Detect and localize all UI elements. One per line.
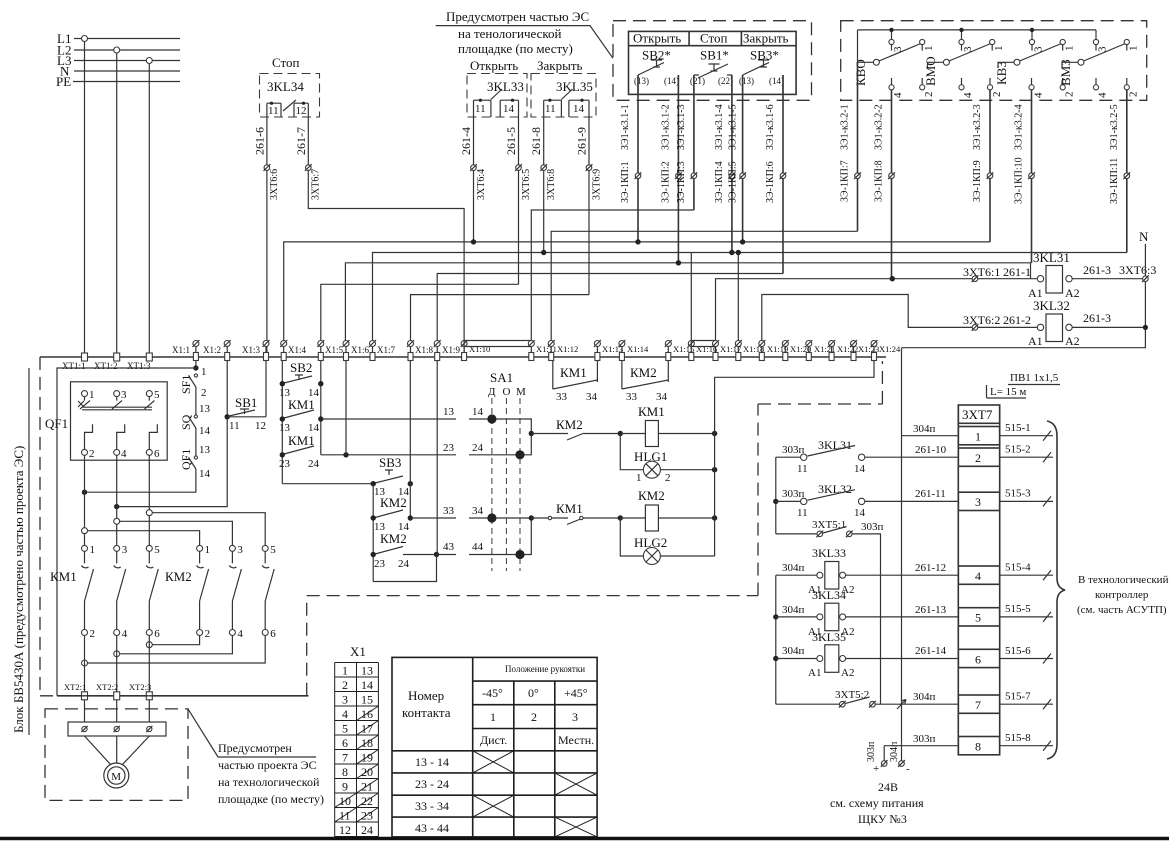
svg-text:ЗЭ1-к3.2-4: ЗЭ1-к3.2-4 <box>1014 104 1025 150</box>
svg-text:(14): (14) <box>769 76 784 86</box>
svg-text:8: 8 <box>975 740 981 754</box>
svg-text:ЗЭ-1КП:3: ЗЭ-1КП:3 <box>676 161 687 203</box>
svg-text:Стоп: Стоп <box>700 31 728 46</box>
svg-text:12: 12 <box>255 420 266 432</box>
terminal X1:18 <box>735 340 764 361</box>
svg-text:X1:5: X1:5 <box>325 345 344 355</box>
brace to controller <box>1047 421 1065 759</box>
svg-text:13: 13 <box>361 664 373 678</box>
svg-text:ЗЭ-1КП:4: ЗЭ-1КП:4 <box>714 161 725 203</box>
svg-text:23: 23 <box>279 458 291 470</box>
contact 3ХТ5:2 <box>776 689 959 709</box>
svg-text:1: 1 <box>205 544 211 556</box>
wire SF1 chain feed <box>195 361 197 371</box>
svg-text:11: 11 <box>475 103 486 115</box>
svg-text:ЗЭ1-к3.2-5: ЗЭ1-к3.2-5 <box>1109 104 1120 150</box>
svg-text:13: 13 <box>443 406 455 418</box>
wire KM2:4 to T2 <box>120 636 233 654</box>
svg-text:XT2:3: XT2:3 <box>129 682 151 692</box>
svg-text:1: 1 <box>1128 46 1140 52</box>
break contact КМ2 (row KM1 coil) <box>531 417 623 440</box>
svg-text:24: 24 <box>361 823 373 837</box>
svg-text:11: 11 <box>268 105 279 117</box>
svg-text:КМ1: КМ1 <box>50 569 77 584</box>
rail 303п short <box>883 746 885 761</box>
svg-text:5: 5 <box>342 722 348 736</box>
table Номер контакта <box>392 657 597 837</box>
break contact КМ1 (row KM2 coil) <box>531 501 623 525</box>
contact 3KL35 <box>544 89 589 117</box>
svg-text:КМ2: КМ2 <box>638 488 665 503</box>
terminal ЗЭ-1КП:7 <box>854 172 861 179</box>
svg-text:515-5: 515-5 <box>1005 603 1031 615</box>
wire branch L2 to KM2:3 <box>114 518 120 524</box>
svg-text:В технологический: В технологический <box>1078 574 1169 586</box>
svg-text:1: 1 <box>923 46 935 52</box>
svg-text:ЗЭ-1КП:6: ЗЭ-1КП:6 <box>765 161 776 203</box>
svg-text:3: 3 <box>122 544 128 556</box>
svg-text:A2: A2 <box>1065 334 1080 348</box>
svg-text:261-7: 261-7 <box>294 127 308 155</box>
svg-text:6: 6 <box>975 652 981 666</box>
terminal X1:3 <box>242 340 270 361</box>
svg-text:Местн.: Местн. <box>558 733 594 747</box>
svg-text:SB3: SB3 <box>379 455 401 470</box>
terminal X1:21 <box>805 340 835 361</box>
svg-text:3: 3 <box>892 46 904 52</box>
svg-text:7: 7 <box>975 698 981 712</box>
terminal X1:23 <box>850 340 879 361</box>
svg-text:ЗЭ-1КП:1: ЗЭ-1КП:1 <box>620 161 631 203</box>
svg-text:контроллер: контроллер <box>1095 589 1149 601</box>
svg-text:3ХТ6:7: 3ХТ6:7 <box>311 169 322 200</box>
relay coil КМ1 <box>620 404 717 447</box>
svg-text:SB1*: SB1* <box>700 48 729 63</box>
terminal X1:14 <box>618 340 649 361</box>
svg-text:XT1:1: XT1:1 <box>62 361 86 371</box>
svg-text:515-2: 515-2 <box>1005 444 1031 456</box>
terminal X1:7 <box>369 340 396 361</box>
svg-text:SA1: SA1 <box>490 370 513 385</box>
wire jog КП:10 to 3KL31 row <box>1030 263 1032 279</box>
wire phase A drop <box>84 39 86 354</box>
svg-text:2: 2 <box>89 448 95 460</box>
svg-text:XT1:2: XT1:2 <box>94 361 118 371</box>
svg-text:М: М <box>516 386 526 398</box>
wire phase col3 lower <box>148 455 150 545</box>
terminal X1:15 <box>665 340 694 361</box>
svg-text:14: 14 <box>472 406 484 418</box>
svg-text:0°: 0° <box>528 686 539 700</box>
wire T3 down <box>148 636 150 693</box>
dashed box motor area <box>45 709 188 801</box>
aux contact КМ2 33-34 top <box>622 361 668 404</box>
svg-text:XT1:3: XT1:3 <box>127 361 151 371</box>
svg-text:Д: Д <box>488 386 496 398</box>
svg-text:2: 2 <box>991 92 1003 98</box>
wire bus X1:7 to КП:11 <box>373 253 1127 344</box>
svg-text:площадке (по месту): площадке (по месту) <box>458 41 573 56</box>
svg-text:14: 14 <box>503 103 515 115</box>
switch SA1 <box>487 370 526 571</box>
svg-text:261-13: 261-13 <box>915 604 947 616</box>
svg-text:4: 4 <box>1033 92 1045 98</box>
svg-text:SQ: SQ <box>179 414 193 430</box>
relay coil 3KL32 <box>963 298 1145 348</box>
svg-text:Стоп: Стоп <box>272 55 300 70</box>
wire 261-9 <box>588 117 590 295</box>
svg-text:Открыть: Открыть <box>470 58 518 73</box>
svg-text:6: 6 <box>154 628 160 640</box>
svg-text:261-8: 261-8 <box>529 127 543 155</box>
terminal strip line <box>40 356 886 358</box>
wire 261-5 <box>518 117 520 284</box>
terminal 3ХТ6:9 <box>586 164 593 171</box>
svg-text:Закрыть: Закрыть <box>537 58 583 73</box>
svg-text:A2: A2 <box>841 667 854 679</box>
wire ЗЭ1-к3.1-6 <box>782 75 784 274</box>
svg-text:33: 33 <box>556 391 568 403</box>
svg-text:1: 1 <box>89 389 95 401</box>
svg-text:14: 14 <box>854 507 866 519</box>
terminal ЗЭ-1КП:4 <box>729 172 736 179</box>
terminal 3ХТ6:5 <box>515 164 522 171</box>
wire X1:5 drop bus <box>320 361 322 455</box>
svg-text:A1: A1 <box>808 667 821 679</box>
wire bus X1:6 to КП:10 <box>345 263 1031 344</box>
svg-text:X1:3: X1:3 <box>242 345 261 355</box>
svg-text:4: 4 <box>975 569 981 583</box>
relay coil 3KL35 (right zone) <box>776 630 959 679</box>
svg-text:КМ1: КМ1 <box>638 404 665 419</box>
wire row 43-44 to SA1 <box>403 518 531 555</box>
svg-text:23: 23 <box>443 442 455 454</box>
svg-text:SB2: SB2 <box>290 360 312 375</box>
svg-text:261-12: 261-12 <box>915 562 946 574</box>
leader to note <box>188 709 316 757</box>
svg-text:14: 14 <box>573 103 585 115</box>
svg-text:X1:7: X1:7 <box>377 345 396 355</box>
svg-text:304п: 304п <box>913 423 936 435</box>
svg-text:261-14: 261-14 <box>915 645 947 657</box>
terminal ЗЭ-1КП:1 <box>635 172 642 179</box>
svg-text:3ХТ6:1: 3ХТ6:1 <box>963 265 1000 279</box>
terminal X1:2 <box>203 340 231 361</box>
svg-text:304п: 304п <box>782 604 805 616</box>
svg-text:515-6: 515-6 <box>1005 645 1031 657</box>
svg-text:КМ2: КМ2 <box>556 417 583 432</box>
svg-text:14: 14 <box>199 468 211 480</box>
svg-text:Дист.: Дист. <box>480 733 507 747</box>
svg-text:2: 2 <box>1064 92 1076 98</box>
svg-text:4: 4 <box>122 628 128 640</box>
svg-text:261-4: 261-4 <box>459 127 473 155</box>
wire lamp right bus to X1:24 <box>715 361 874 557</box>
svg-text:303п: 303п <box>861 521 884 533</box>
svg-text:(13): (13) <box>739 76 754 86</box>
svg-text:3: 3 <box>962 46 974 52</box>
wire T2 down <box>116 636 118 693</box>
wire X1:9 drop <box>436 361 438 555</box>
svg-text:6: 6 <box>270 628 276 640</box>
svg-text:X1:24: X1:24 <box>879 344 901 354</box>
svg-text:Блок БВ5430А (предусмотрено ча: Блок БВ5430А (предусмотрено частью проек… <box>11 446 26 733</box>
svg-text:1: 1 <box>342 664 348 678</box>
svg-text:3KL34: 3KL34 <box>267 79 304 94</box>
svg-text:X1:14: X1:14 <box>627 344 649 354</box>
svg-text:304п: 304п <box>889 741 900 762</box>
svg-text:Предусмотрен частью ЭС: Предусмотрен частью ЭС <box>446 9 589 24</box>
terminal X1:17 <box>712 340 741 361</box>
terminal X1:19 <box>758 340 788 361</box>
svg-text:SB1: SB1 <box>235 395 257 410</box>
svg-text:2: 2 <box>531 710 537 724</box>
svg-text:3KL35: 3KL35 <box>556 79 593 94</box>
terminal ЗЭ-1КП:2 <box>675 172 682 179</box>
aux contact QF1 <box>82 449 211 495</box>
svg-text:261-9: 261-9 <box>575 127 589 155</box>
svg-text:ЗЭ1-к3.2-3: ЗЭ1-к3.2-3 <box>972 104 983 150</box>
svg-text:11: 11 <box>797 463 808 475</box>
wire PE <box>73 81 180 83</box>
svg-text:1: 1 <box>201 366 207 378</box>
relay coil 3KL33 (right zone) <box>776 546 959 596</box>
svg-text:2: 2 <box>1128 92 1140 98</box>
svg-text:ЗЭ-1КП:9: ЗЭ-1КП:9 <box>972 160 983 202</box>
svg-text:3KL35: 3KL35 <box>812 630 846 644</box>
svg-text:43: 43 <box>443 541 455 553</box>
svg-text:4: 4 <box>121 448 127 460</box>
relay contact 3KL31 (right zone) <box>776 438 959 475</box>
wire bus X1:5 to 261-5 <box>321 284 519 343</box>
wire row 23-24 to SA1 <box>321 434 532 455</box>
svg-text:3ХТ6:5: 3ХТ6:5 <box>521 169 532 200</box>
svg-text:2: 2 <box>923 92 935 98</box>
terminal X1:16 + jumper <box>688 340 717 361</box>
515 output wires <box>1000 422 1053 751</box>
svg-text:515-3: 515-3 <box>1005 488 1031 500</box>
terminal X1:5 <box>317 340 343 361</box>
svg-text:11: 11 <box>797 507 808 519</box>
wire N <box>74 70 180 72</box>
svg-text:34: 34 <box>586 391 598 403</box>
wire ЗЭ1-к3.1-4 <box>731 75 733 253</box>
svg-text:3: 3 <box>121 389 127 401</box>
svg-text:ЗЭ-1КП:7: ЗЭ-1КП:7 <box>840 160 851 202</box>
breaker QF1 <box>45 382 167 460</box>
svg-text:QF1: QF1 <box>179 449 193 470</box>
svg-text:2: 2 <box>90 628 96 640</box>
wire phase col2 lower <box>116 455 118 545</box>
terminal XT1:1 <box>62 353 88 371</box>
wire bus X1:8 to 261-9 <box>411 295 590 344</box>
leader line <box>436 26 613 59</box>
svg-text:-: - <box>906 763 910 775</box>
svg-text:33: 33 <box>443 505 455 517</box>
svg-text:ЗЭ-1КП:8: ЗЭ-1КП:8 <box>874 160 885 202</box>
svg-text:3ХТ6:3: 3ХТ6:3 <box>1119 263 1156 277</box>
svg-text:Закрыть: Закрыть <box>743 31 789 46</box>
svg-text:контакта: контакта <box>402 705 451 720</box>
svg-text:2: 2 <box>205 628 211 640</box>
aux contact КМ2 23-24 <box>371 531 410 570</box>
dashed outline Блок БВ5430А <box>40 357 882 696</box>
svg-text:24: 24 <box>398 558 410 570</box>
svg-text:+45°: +45° <box>564 686 588 700</box>
terminal X1:20 <box>782 340 811 361</box>
svg-text:5: 5 <box>154 389 160 401</box>
svg-text:43 - 44: 43 - 44 <box>415 821 449 835</box>
relay contact 3KL32 (right zone) <box>776 482 959 519</box>
terminal ЗЭ-1КП:9 <box>987 172 994 179</box>
svg-text:ЗЭ1-к3.2-1: ЗЭ1-к3.2-1 <box>840 104 851 150</box>
svg-text:3: 3 <box>1097 46 1109 52</box>
svg-text:ВМО: ВМО <box>923 56 938 86</box>
terminal 3ХТ6:6 <box>264 164 271 171</box>
svg-text:303п: 303п <box>913 733 936 745</box>
wire ЗЭ1-к3.1-3 <box>693 75 695 210</box>
wire phase col1 lower <box>84 455 86 545</box>
svg-text:КМ1: КМ1 <box>288 397 315 412</box>
svg-text:44: 44 <box>472 541 484 553</box>
svg-text:261-3: 261-3 <box>1083 311 1111 325</box>
svg-text:3ХТ6:8: 3ХТ6:8 <box>546 169 557 200</box>
contact 3KL33 <box>474 89 519 117</box>
svg-text:24: 24 <box>472 442 484 454</box>
svg-text:ЗЭ1-к3.1-3: ЗЭ1-к3.1-3 <box>676 104 687 150</box>
rail B 304п <box>775 575 777 704</box>
svg-text:КМ2: КМ2 <box>630 365 657 380</box>
svg-text:4: 4 <box>237 628 243 640</box>
pushbutton SB1 <box>114 361 266 510</box>
svg-text:ЗЭ1-к3.1-4: ЗЭ1-к3.1-4 <box>714 104 725 150</box>
svg-text:КМ1: КМ1 <box>556 501 583 516</box>
svg-text:PE: PE <box>56 74 71 89</box>
svg-text:-45°: -45° <box>482 686 503 700</box>
svg-text:4: 4 <box>342 707 348 721</box>
terminal X1:24 <box>871 340 902 361</box>
svg-text:3KL33: 3KL33 <box>812 546 846 560</box>
svg-text:261-5: 261-5 <box>504 127 518 155</box>
terminal ЗЭ-1КП:8 <box>888 172 895 179</box>
svg-text:3: 3 <box>1033 46 1045 52</box>
svg-text:L= 15 м: L= 15 м <box>990 386 1026 398</box>
terminal X1:11 <box>528 340 557 361</box>
terminal ЗЭ-1КП:5 <box>739 172 746 179</box>
contactor КМ1 main poles <box>50 544 160 640</box>
terminal 3ХТ6:4 <box>470 164 477 171</box>
svg-text:XT2:1: XT2:1 <box>64 682 86 692</box>
svg-text:ЗЭ-1КП:5: ЗЭ-1КП:5 <box>728 161 739 203</box>
svg-text:SF1: SF1 <box>179 375 193 394</box>
svg-text:1: 1 <box>1064 46 1076 52</box>
svg-text:2: 2 <box>201 387 207 399</box>
svg-text:33 - 34: 33 - 34 <box>415 799 449 813</box>
svg-text:О: О <box>503 386 511 398</box>
limit switch КВО <box>853 28 935 279</box>
contact 3ХТ5:1 <box>776 519 884 704</box>
terminal X1:22 <box>828 340 858 361</box>
terminal X1:9 <box>434 340 461 361</box>
svg-text:частью проекта ЭС: частью проекта ЭС <box>218 758 317 772</box>
svg-text:515-4: 515-4 <box>1005 562 1031 574</box>
svg-text:X1:10: X1:10 <box>469 344 490 354</box>
svg-text:Положение рукоятки: Положение рукоятки <box>505 664 585 674</box>
svg-text:304п: 304п <box>913 691 936 703</box>
wire ЗЭ1-к3.1-5 <box>742 75 744 242</box>
svg-text:X1:4: X1:4 <box>288 345 307 355</box>
svg-text:5: 5 <box>975 611 981 625</box>
terminal X1:8 <box>407 340 434 361</box>
svg-text:304п: 304п <box>782 562 805 574</box>
terminal 3ХТ6:8 <box>540 164 547 171</box>
terminal ЗЭ-1КП:3 <box>691 172 698 179</box>
junction SA1 rows to KM rows <box>529 431 534 436</box>
aux contact КМ1 23-24 <box>279 433 320 470</box>
svg-text:ЗЭ1-к3.1-5: ЗЭ1-к3.1-5 <box>728 104 739 150</box>
svg-text:261-1: 261-1 <box>1003 265 1031 279</box>
limit switch КВЗ <box>994 28 1076 263</box>
svg-text:3ХТ6:6: 3ХТ6:6 <box>269 169 280 200</box>
wire 261-7 <box>308 117 464 353</box>
wire L3 <box>74 60 180 62</box>
terminal X1:6 <box>343 340 370 361</box>
svg-text:515-8: 515-8 <box>1005 732 1031 744</box>
svg-text:ЗЭ1-к3.1-6: ЗЭ1-к3.1-6 <box>765 104 776 150</box>
svg-text:8: 8 <box>342 765 348 779</box>
svg-text:13: 13 <box>199 444 211 456</box>
motor M <box>85 736 150 765</box>
svg-text:34: 34 <box>472 505 484 517</box>
terminal X1:12 <box>548 340 579 361</box>
svg-text:ПВ1 1х1,5: ПВ1 1х1,5 <box>1010 372 1059 384</box>
terminal box <box>68 722 166 736</box>
svg-text:12: 12 <box>339 823 351 837</box>
svg-text:9: 9 <box>342 780 348 794</box>
svg-text:площадке (по месту): площадке (по месту) <box>218 792 324 806</box>
svg-text:4: 4 <box>1097 92 1109 98</box>
page bottom border <box>0 837 1169 841</box>
contact 3KL34 <box>267 100 308 117</box>
svg-text:515-1: 515-1 <box>1005 422 1031 434</box>
svg-text:1: 1 <box>90 544 96 556</box>
svg-text:13 - 14: 13 - 14 <box>415 755 449 769</box>
svg-text:ЗЭ-1КП:10: ЗЭ-1КП:10 <box>1014 157 1025 204</box>
wire SB3 bus left <box>372 484 374 582</box>
svg-text:14: 14 <box>199 425 211 437</box>
svg-text:24: 24 <box>308 458 320 470</box>
svg-text:23 - 24: 23 - 24 <box>415 777 449 791</box>
wire riser X1:16 <box>690 253 692 342</box>
svg-text:13: 13 <box>199 403 211 415</box>
wire L2 <box>74 49 180 51</box>
svg-text:6: 6 <box>154 448 160 460</box>
svg-text:261-6: 261-6 <box>253 127 267 155</box>
svg-text:4: 4 <box>962 92 974 98</box>
svg-text:ЗЭ-1КП:11: ЗЭ-1КП:11 <box>1109 158 1120 204</box>
limit switch ВМЗ <box>1058 30 1140 253</box>
svg-text:3ХТ6:9: 3ХТ6:9 <box>592 169 603 200</box>
wire 261-8 <box>543 117 545 253</box>
svg-text:6: 6 <box>342 736 348 750</box>
svg-text:ЩКУ №3: ЩКУ №3 <box>858 812 907 826</box>
rail 304п (N) <box>901 348 903 761</box>
wire riser X1:18 <box>737 253 739 344</box>
row 8: 303п to cell 8 <box>884 745 958 747</box>
svg-text:1: 1 <box>993 46 1005 52</box>
terminal strip XT2 <box>57 695 309 697</box>
supply terminals <box>881 760 888 767</box>
